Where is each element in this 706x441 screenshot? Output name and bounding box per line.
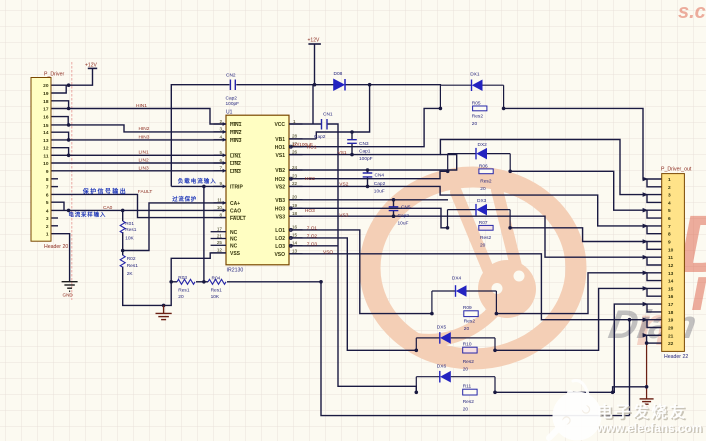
wire DX6 out to header pin17 [495, 304, 662, 392]
svg-text:18: 18 [43, 99, 49, 105]
left pin stubs [211, 124, 226, 253]
svg-text:100pF: 100pF [359, 156, 373, 162]
wire rail CN2 left [171, 85, 229, 187]
svg-text:11: 11 [668, 255, 673, 261]
svg-text:15: 15 [43, 123, 49, 129]
svg-text:7: 7 [219, 166, 222, 171]
svg-text:6: 6 [46, 192, 49, 198]
svg-text:4: 4 [219, 135, 222, 140]
wire pin18 loop [51, 101, 69, 109]
svg-text:R01: R01 [125, 221, 134, 227]
wire net CA+ [123, 203, 226, 251]
wire net ITRIP riser [203, 186, 205, 281]
wire header pins 11-12 loop [647, 257, 662, 265]
svg-text:9: 9 [219, 181, 222, 186]
svg-text:DX6: DX6 [437, 363, 447, 369]
input pin arrows [223, 122, 226, 212]
svg-text:CN1: CN1 [323, 112, 333, 118]
wire net VB3 [289, 199, 448, 201]
wire COM spur to GND [613, 387, 647, 393]
wire R01 bottom lead [122, 232, 124, 255]
svg-text:NC: NC [230, 237, 238, 243]
elecfans white logo bottom right [549, 381, 704, 441]
svg-text:Res1: Res1 [127, 263, 139, 269]
svg-text:R02: R02 [127, 256, 136, 262]
svg-text:1: 1 [668, 177, 671, 183]
svg-text:Res2: Res2 [463, 399, 475, 405]
svg-text:NC: NC [230, 230, 238, 236]
wire DX4 out to header pin13 [496, 273, 662, 314]
resistor R04 [208, 275, 226, 299]
wire rail drop to VB1 [316, 85, 369, 139]
svg-text:10uF: 10uF [398, 221, 409, 227]
svg-text:23: 23 [292, 174, 298, 179]
svg-text:R10: R10 [463, 342, 472, 348]
wire R02 bottom to GND rail [123, 267, 164, 306]
svg-text:6: 6 [668, 216, 671, 222]
svg-text:HO3: HO3 [275, 207, 286, 213]
svg-text:5: 5 [668, 208, 671, 214]
wire net CA0 [51, 209, 226, 211]
wire net HO2 [289, 171, 448, 178]
svg-text:16: 16 [43, 115, 49, 121]
svg-text:28: 28 [292, 134, 298, 139]
power GND drop right (dark red) [646, 343, 648, 399]
svg-text:VS3: VS3 [276, 214, 286, 220]
svg-text:DX5: DX5 [437, 324, 447, 330]
svg-text:LO2: LO2 [275, 236, 285, 242]
svg-text:12: 12 [43, 146, 49, 152]
wire header pins 3-4 loop [647, 195, 662, 203]
svg-text:CN2: CN2 [226, 73, 236, 79]
svg-text:HO3: HO3 [305, 208, 315, 214]
svg-text:VB2: VB2 [275, 168, 285, 174]
svg-text:HO1: HO1 [307, 144, 317, 150]
header P_Driver (left, Header 20) [31, 72, 68, 251]
wire R04 right to sense riser [227, 281, 321, 283]
svg-text:26: 26 [292, 149, 298, 154]
svg-text:R04: R04 [212, 275, 221, 281]
svg-text:DX2: DX2 [478, 142, 488, 148]
svg-text:Dian: Dian [605, 302, 700, 347]
svg-text:VS1: VS1 [338, 150, 347, 156]
svg-text:www.elecfans.com: www.elecfans.com [596, 421, 702, 435]
svg-text:CN5: CN5 [401, 204, 411, 210]
power +12V top [308, 38, 321, 45]
svg-text:负载电流输入: 负载电流输入 [178, 177, 217, 185]
svg-text:1: 1 [46, 232, 49, 238]
wire net HO1 [289, 108, 440, 146]
right pin stubs [289, 124, 303, 254]
svg-text:DX3: DX3 [477, 198, 487, 204]
svg-text:ITRIP: ITRIP [230, 185, 243, 191]
plug prong 1 [456, 192, 492, 279]
svg-text:LO3: LO3 [275, 244, 285, 250]
wire pin14 loop [51, 132, 69, 140]
diode DX1 + resistor R05 [440, 71, 503, 127]
svg-text:10K: 10K [125, 235, 134, 241]
wire R03-R04 mid [196, 281, 208, 283]
svg-text:19: 19 [292, 203, 298, 208]
wire pin3 stub [51, 217, 58, 219]
capacitor CN2 [226, 73, 240, 108]
resistor R01 [120, 221, 137, 242]
svg-text:LO1: LO1 [275, 228, 285, 234]
svg-text:4: 4 [668, 200, 671, 206]
wire analog ground riser VSS [164, 253, 226, 306]
svg-text:R06: R06 [479, 164, 488, 170]
svg-text:22: 22 [292, 181, 298, 186]
svg-text:20: 20 [178, 294, 184, 300]
svg-text:12: 12 [217, 248, 223, 253]
ring of elecfans logo watermark [370, 177, 576, 359]
WATERMARKS (under schematic ink) [370, 1, 706, 359]
svg-text:VS2: VS2 [276, 185, 286, 191]
wire net LO3 [289, 245, 338, 247]
wire net ITRIP row [171, 185, 226, 187]
wire net VS1 [289, 140, 662, 195]
svg-text:Cap2: Cap2 [398, 213, 410, 219]
svg-text:18: 18 [668, 310, 674, 316]
svg-text:HIN3: HIN3 [139, 134, 150, 140]
svg-text:LIN1: LIN1 [139, 150, 149, 156]
wire CN5 top lead [393, 200, 395, 207]
svg-text:7.O3: 7.O3 [307, 241, 318, 247]
svg-text:VB3: VB3 [275, 198, 285, 204]
svg-text:P_Driver_out: P_Driver_out [661, 167, 692, 173]
ground analog mid [156, 305, 172, 319]
SCHEMATIC INK [51, 44, 662, 416]
svg-text:16: 16 [668, 294, 674, 300]
svg-text:s.c: s.c [678, 1, 706, 23]
wire pin12 loop [51, 148, 69, 156]
svg-text:过流保护: 过流保护 [172, 195, 197, 203]
svg-text:20: 20 [480, 186, 486, 192]
svg-text:10: 10 [217, 205, 223, 210]
wire net LIN1 [51, 154, 226, 156]
wire pin22 stub [647, 342, 662, 344]
svg-text:NC: NC [230, 244, 238, 250]
capacitor CN1 [293, 112, 333, 148]
svg-text:VS1: VS1 [276, 153, 286, 159]
svg-text:LIN3: LIN3 [230, 169, 241, 175]
resistor R02 [120, 255, 138, 277]
svg-text:FAULT: FAULT [230, 216, 246, 222]
wire sense line R03 left [171, 281, 177, 283]
wire header pins 5-6 loop [647, 210, 662, 218]
svg-text:VSS: VSS [230, 251, 241, 257]
svg-text:1: 1 [293, 119, 296, 124]
svg-text:100pF: 100pF [226, 101, 240, 107]
resistor R03 [177, 275, 195, 300]
svg-text:10uF: 10uF [374, 189, 385, 195]
svg-text:5: 5 [46, 200, 49, 206]
wire rail D08 to DX1 [346, 84, 441, 87]
pin names left column [230, 122, 246, 257]
svg-text:17: 17 [217, 227, 223, 232]
svg-text:VS3: VS3 [339, 213, 348, 219]
svg-text:13: 13 [292, 249, 298, 254]
wire net VB2 [289, 169, 454, 171]
svg-text:VCC: VCC [274, 122, 285, 128]
svg-text:2: 2 [46, 224, 49, 230]
wire net HIN1 [51, 109, 226, 125]
svg-text:4: 4 [46, 208, 49, 214]
svg-text:GND: GND [63, 293, 74, 298]
diode DX3 + resistor R07 [448, 198, 511, 248]
wire net HIN3 [51, 139, 226, 141]
wire header pins 15-16 loop [647, 288, 662, 296]
svg-text:25: 25 [217, 240, 223, 245]
svg-text:LIN1: LIN1 [230, 154, 241, 160]
svg-text:R09: R09 [463, 305, 472, 311]
wire net VSO [289, 254, 662, 320]
svg-text:2: 2 [219, 119, 222, 124]
svg-text:10: 10 [43, 161, 49, 167]
wire net LO1 [289, 230, 432, 314]
wire net HO3 [289, 208, 448, 228]
svg-text:VSO: VSO [274, 252, 285, 258]
wire pin20 stub [51, 84, 69, 86]
wire pin7 stub [51, 186, 58, 188]
svg-text:FAULT: FAULT [138, 189, 153, 195]
svg-text:12: 12 [668, 263, 674, 269]
wire COM riser [646, 335, 648, 343]
svg-text:7: 7 [46, 185, 49, 191]
svg-text:保护信号输出: 保护信号输出 [82, 188, 127, 196]
plug prong 2 [497, 190, 517, 270]
svg-text:13: 13 [668, 271, 674, 277]
wire R01 top lead [122, 210, 124, 221]
wire header pins 17-18 loop [647, 304, 662, 312]
wire net VS3 [289, 216, 662, 257]
svg-text:20: 20 [480, 242, 486, 248]
wire net HIN2 [51, 125, 226, 132]
svg-text:17: 17 [668, 302, 674, 308]
wire pin1 to GND [51, 234, 70, 282]
svg-text:20: 20 [463, 407, 469, 413]
plug prong holes [492, 283, 503, 294]
svg-text:20: 20 [668, 326, 674, 332]
svg-text:20: 20 [464, 326, 470, 332]
svg-text:VB1: VB1 [275, 137, 285, 143]
svg-text:CAO: CAO [230, 209, 241, 215]
svg-text:8: 8 [219, 212, 222, 217]
op IC U1 IR2130 [211, 110, 303, 274]
wire VB1 stub [289, 138, 316, 140]
svg-text:VSO: VSO [323, 249, 333, 255]
svg-text:P_Driver: P_Driver [44, 72, 64, 78]
svg-text:HO1: HO1 [275, 145, 286, 151]
svg-text:18: 18 [292, 211, 298, 216]
wire CN3 top lead [351, 132, 353, 140]
wire pin16 loop [51, 117, 68, 125]
svg-text:19: 19 [668, 318, 674, 324]
svg-text:Cap2: Cap2 [226, 96, 238, 102]
wire VCC riser [312, 85, 314, 124]
wire header pins 19-20 loop [647, 320, 662, 328]
svg-text:14: 14 [43, 130, 49, 136]
wire DX5 out to header pin15 [495, 288, 662, 350]
svg-text:22: 22 [668, 341, 674, 347]
ground power right [640, 399, 654, 404]
right pin numbers [292, 119, 298, 254]
svg-text:Res1: Res1 [211, 287, 223, 293]
wire pin8 stub [51, 178, 58, 180]
header P_Driver_out (right, Header 22) [661, 167, 692, 361]
wire net FAULT [51, 194, 226, 217]
cable stem of logo watermark [414, 312, 493, 340]
capacitor CN5 [389, 204, 411, 226]
wire net LIN3 [51, 170, 226, 172]
wire VB2 spur [440, 155, 456, 170]
svg-text:16: 16 [292, 225, 298, 230]
wire CN4 bottom lead [367, 177, 369, 187]
svg-text:IR2130: IR2130 [227, 268, 244, 274]
svg-text:7.O1: 7.O1 [307, 225, 318, 231]
svg-text:+12V: +12V [308, 38, 320, 44]
svg-text:LIN2: LIN2 [139, 158, 149, 164]
svg-text:HIN1: HIN1 [136, 103, 147, 109]
svg-text:电子发烧友: 电子发烧友 [597, 402, 688, 421]
wire sense riser to pin19 [629, 320, 631, 416]
red letter fragments right edge [636, 1, 706, 357]
wire net LIN2 [51, 162, 226, 164]
svg-text:R03: R03 [178, 275, 187, 281]
wire VCC pin to CN1 [289, 123, 322, 125]
svg-text:Res2: Res2 [463, 359, 475, 365]
wire header pins 13-14 loop [647, 273, 662, 281]
svg-text:3: 3 [668, 193, 671, 199]
wire pin21 stub [647, 334, 662, 336]
svg-text:R07: R07 [479, 220, 488, 226]
svg-text:20: 20 [463, 367, 469, 373]
svg-text:LIN3: LIN3 [139, 165, 149, 171]
svg-text:电流采样输入: 电流采样输入 [68, 210, 106, 218]
svg-text:Res2: Res2 [480, 235, 492, 241]
red guide line artifact [71, 62, 73, 300]
diode DX2 + resistor R06 [448, 142, 511, 192]
svg-text:Res2: Res2 [464, 319, 476, 325]
wire CN5 bottom lead [393, 211, 395, 217]
svg-text:19: 19 [43, 91, 49, 97]
plug body of logo watermark [478, 260, 536, 318]
svg-text:20: 20 [43, 83, 49, 89]
svg-text:14: 14 [668, 279, 674, 285]
svg-text:9: 9 [46, 169, 49, 175]
svg-text:VS2: VS2 [339, 182, 348, 188]
svg-text:11: 11 [217, 198, 222, 203]
wire pin2 stub [51, 225, 58, 227]
svg-text:HIN2: HIN2 [230, 130, 242, 136]
svg-text:21: 21 [217, 233, 223, 238]
svg-text:Cap2: Cap2 [314, 134, 326, 140]
svg-text:8: 8 [46, 177, 49, 183]
svg-text:7: 7 [668, 224, 671, 230]
svg-text:Cap2: Cap2 [374, 181, 386, 187]
svg-text:10: 10 [668, 247, 674, 253]
svg-text:10K: 10K [211, 294, 220, 300]
wire header pins 9-10 loop [647, 242, 662, 250]
svg-text:CA0: CA0 [103, 205, 113, 211]
svg-text:5: 5 [219, 150, 222, 155]
svg-text:2: 2 [668, 185, 671, 191]
svg-text:U1: U1 [226, 110, 233, 116]
wire sense net to header [321, 282, 630, 416]
svg-text:2K: 2K [127, 271, 134, 277]
svg-text:HIN2: HIN2 [139, 126, 150, 132]
diode DX5 + resistor R10 [416, 324, 495, 372]
wire CN3 bottom lead [351, 143, 353, 154]
svg-text:6: 6 [219, 158, 222, 163]
svg-text:Header 22: Header 22 [664, 354, 688, 360]
diode DX4 + resistor R09 [432, 276, 497, 333]
svg-text:DX4: DX4 [452, 276, 462, 282]
ground GND left [62, 282, 78, 292]
svg-text:14: 14 [292, 241, 298, 246]
svg-text:CA+: CA+ [230, 201, 240, 207]
svg-text:8: 8 [668, 232, 671, 238]
svg-text:Cap1: Cap1 [359, 149, 371, 155]
wire DX1 out to header pin1 [504, 108, 662, 179]
svg-text:20: 20 [472, 121, 478, 127]
svg-text:HO2: HO2 [275, 177, 286, 183]
svg-text:HO2: HO2 [305, 176, 315, 182]
wire +12V left drop [69, 68, 93, 85]
svg-text:Res1: Res1 [178, 288, 190, 294]
diode D08 [334, 71, 346, 91]
svg-text:HIN3: HIN3 [230, 138, 242, 144]
svg-text:D08: D08 [334, 71, 343, 77]
diode DX6 + resistor R11 [416, 363, 495, 412]
svg-text:HIN1: HIN1 [230, 122, 242, 128]
wire pin19 loop [51, 85, 66, 93]
svg-text:CN3: CN3 [359, 141, 369, 147]
svg-text:3: 3 [46, 216, 49, 222]
left pin numbers [217, 119, 223, 253]
svg-text:15: 15 [292, 233, 298, 238]
wire net LO2 [289, 238, 416, 350]
wire pin5 loop [51, 202, 64, 210]
svg-text:Header 20: Header 20 [44, 244, 68, 250]
svg-text:R11: R11 [463, 384, 472, 390]
svg-text:Res2: Res2 [480, 178, 492, 184]
svg-text:3: 3 [219, 127, 222, 132]
wire rail CN2 to D08 [236, 84, 333, 86]
svg-text:21: 21 [668, 333, 674, 339]
wire header pins 7-8 loop [647, 226, 662, 234]
svg-text:20: 20 [292, 195, 298, 200]
svg-text:15: 15 [668, 286, 674, 292]
wire net VS2 [289, 186, 662, 226]
power +12V left [85, 63, 97, 69]
svg-text:Res1: Res1 [125, 227, 137, 233]
svg-text:DX1: DX1 [470, 71, 480, 77]
svg-text:24: 24 [292, 165, 298, 170]
capacitor CN4 [363, 173, 386, 195]
wire DX3 out to header pin9 [510, 228, 662, 242]
svg-text:Res2: Res2 [472, 113, 484, 119]
svg-text:CN4: CN4 [375, 173, 385, 179]
svg-text:R05: R05 [472, 101, 481, 107]
wire DX2 out to header pin5 [510, 171, 662, 210]
capacitor CN3 [347, 140, 372, 163]
wire +12V top drop [314, 44, 316, 85]
svg-text:11: 11 [43, 153, 48, 159]
svg-text:17: 17 [43, 107, 49, 113]
wire GND drop at header [646, 343, 648, 399]
wire CN4 top lead [367, 170, 369, 173]
